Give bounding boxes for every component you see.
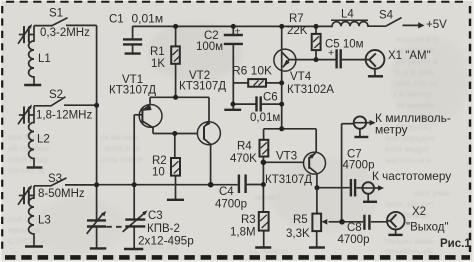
svg-text:0,01м: 0,01м — [132, 11, 164, 25]
svg-text:0,3-2MHz: 0,3-2MHz — [40, 27, 90, 39]
svg-text:алов и гр: алов и гр — [104, 143, 141, 153]
svg-text:+: + — [235, 26, 241, 38]
svg-text:ах колеба: ах колеба — [396, 100, 435, 110]
svg-text:C6: C6 — [263, 91, 278, 103]
svg-text:R3: R3 — [241, 214, 256, 226]
svg-text:2х12-495р: 2х12-495р — [138, 233, 194, 247]
svg-text:C8: C8 — [347, 222, 362, 234]
svg-text:R2: R2 — [152, 155, 167, 167]
svg-text:0,01м: 0,01м — [250, 112, 280, 124]
svg-text:ной апп: ной апп — [8, 214, 39, 224]
svg-text:ончатель нп: ончатель нп — [385, 246, 433, 256]
svg-text:К частотомеру: К частотомеру — [372, 169, 451, 183]
svg-text:ером на: ером на — [8, 225, 40, 235]
svg-text:10: 10 — [152, 166, 165, 178]
svg-text:C1: C1 — [109, 13, 124, 25]
svg-text:1K: 1K — [151, 58, 165, 70]
svg-text:L1: L1 — [38, 53, 51, 65]
svg-text:X1 "АМ": X1 "АМ" — [388, 50, 431, 62]
svg-text:частоты и н: частоты и н — [385, 155, 431, 165]
svg-text:1,8М: 1,8М — [230, 226, 256, 238]
svg-text:ная. На ча: ная. На ча — [396, 78, 437, 88]
svg-text:ти на нем: ти на нем — [100, 132, 138, 142]
svg-text:КТ3107Д: КТ3107Д — [179, 80, 226, 92]
svg-text:тельно изме: тельно изме — [385, 236, 434, 246]
svg-text:4700р: 4700р — [338, 234, 370, 246]
svg-text:КТ3102А: КТ3102А — [287, 84, 334, 96]
svg-text:L3: L3 — [38, 214, 51, 226]
svg-text:S4: S4 — [379, 9, 394, 21]
svg-text:R5: R5 — [293, 214, 308, 226]
svg-text:R4: R4 — [237, 140, 252, 152]
svg-text:R6 10K: R6 10K — [232, 63, 272, 77]
svg-text:4700p: 4700p — [215, 198, 247, 210]
svg-text:ется модул: ется модул — [385, 144, 429, 154]
svg-text:8-50MHz: 8-50MHz — [38, 188, 85, 200]
svg-text:т и частот: т и частот — [393, 89, 432, 99]
svg-text:ость совре: ость совре — [100, 154, 143, 164]
svg-text:СТРОЙ эт: СТРОЙ эт — [8, 235, 48, 246]
svg-text:470K: 470K — [230, 153, 257, 165]
svg-text:нием г: нием г — [255, 192, 280, 202]
svg-text:ть и в дом: ть и в дом — [393, 67, 433, 77]
svg-text:S3: S3 — [48, 173, 62, 185]
svg-text:КТ3107Д: КТ3107Д — [109, 84, 156, 96]
svg-text:22K: 22K — [287, 25, 308, 37]
svg-text:C5 10м: C5 10м — [325, 38, 364, 50]
svg-text:+5V: +5V — [426, 19, 447, 31]
svg-text:"Выход": "Выход" — [406, 221, 449, 233]
svg-text:L2: L2 — [37, 133, 50, 145]
svg-text:R7: R7 — [289, 13, 304, 25]
svg-text:ного учас: ного учас — [413, 188, 451, 198]
svg-text:3,3K: 3,3K — [286, 228, 310, 240]
svg-text:100м: 100м — [196, 41, 223, 53]
svg-text:4700р: 4700р — [343, 159, 375, 171]
svg-text:C3: C3 — [148, 210, 163, 222]
svg-text:X2: X2 — [412, 206, 426, 218]
svg-text:1,8-12MHz: 1,8-12MHz — [36, 109, 92, 121]
svg-text:Рис.1: Рис.1 — [440, 238, 471, 250]
svg-text:R1: R1 — [150, 46, 165, 58]
svg-text:S2: S2 — [49, 89, 63, 101]
svg-text:КТ3107Д: КТ3107Д — [265, 174, 312, 186]
svg-text:L4: L4 — [341, 8, 354, 20]
svg-text:VT4: VT4 — [290, 71, 312, 83]
svg-text:метру: метру — [375, 122, 408, 136]
svg-text:ваются в с: ваются в с — [396, 34, 438, 44]
svg-text:VT3: VT3 — [276, 150, 297, 162]
svg-text:C4: C4 — [219, 186, 234, 198]
svg-text:S1: S1 — [49, 7, 63, 19]
